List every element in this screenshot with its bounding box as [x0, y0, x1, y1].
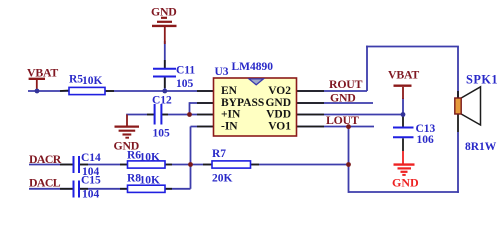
- svg-text:20K: 20K: [212, 173, 233, 185]
- svg-text:R7: R7: [212, 148, 226, 160]
- svg-text:104: 104: [82, 189, 100, 201]
- svg-text:U3: U3: [215, 66, 229, 78]
- svg-text:8R1W: 8R1W: [465, 141, 497, 153]
- svg-text:C14: C14: [81, 152, 101, 164]
- svg-text:VDD: VDD: [266, 109, 291, 121]
- svg-text:GND: GND: [392, 176, 419, 190]
- svg-text:SPK1: SPK1: [466, 73, 498, 87]
- svg-text:LOUT: LOUT: [326, 113, 359, 127]
- svg-text:VO1: VO1: [268, 121, 291, 133]
- svg-text:VBAT: VBAT: [388, 68, 419, 82]
- svg-text:GND: GND: [151, 5, 177, 19]
- svg-text:GND: GND: [330, 91, 356, 105]
- svg-text:EN: EN: [221, 85, 238, 97]
- svg-text:+IN: +IN: [221, 109, 241, 121]
- svg-text:10K: 10K: [140, 152, 161, 164]
- svg-text:DACR: DACR: [29, 152, 62, 166]
- svg-text:VO2: VO2: [268, 85, 291, 97]
- svg-text:C11: C11: [176, 65, 195, 77]
- svg-text:C15: C15: [81, 175, 101, 187]
- svg-text:10K: 10K: [140, 175, 161, 187]
- svg-text:LM4890: LM4890: [232, 61, 274, 73]
- svg-text:C12: C12: [152, 95, 172, 107]
- svg-text:-IN: -IN: [221, 121, 238, 133]
- svg-text:GND: GND: [265, 97, 291, 109]
- svg-text:105: 105: [153, 127, 171, 139]
- svg-text:BYPASS: BYPASS: [221, 97, 264, 109]
- svg-text:DACL: DACL: [29, 176, 61, 190]
- svg-text:106: 106: [417, 134, 435, 146]
- svg-text:ROUT: ROUT: [329, 77, 363, 91]
- svg-text:VBAT: VBAT: [27, 66, 58, 80]
- svg-text:105: 105: [176, 78, 194, 90]
- svg-text:10K: 10K: [82, 75, 103, 87]
